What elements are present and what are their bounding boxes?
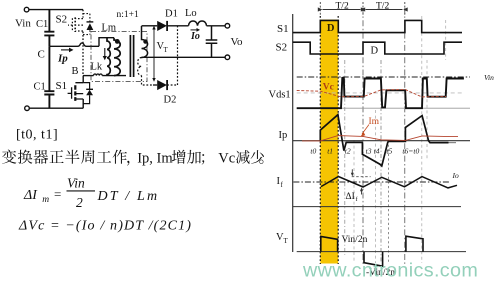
- wire Lo to output: [207, 25, 226, 27]
- gridline x=363: [362, 8, 364, 264]
- waveform If: [321, 177, 457, 188]
- wire top rail: [29, 9, 83, 11]
- transformer secondary upper winding: [142, 26, 148, 58]
- output terminal bottom: [225, 55, 230, 60]
- waveform S1: [293, 20, 462, 32]
- label D (S2): [371, 46, 379, 57]
- svg-text:C: C: [38, 49, 45, 61]
- node B label: [72, 66, 79, 77]
- dotted freewheel connection D2 to D1: [167, 26, 177, 85]
- svg-text:B: B: [72, 66, 79, 77]
- svg-text:S2: S2: [276, 42, 288, 54]
- Vds1 zero line: [297, 107, 470, 109]
- node C wire with hop: [50, 43, 100, 46]
- waveform S2: [293, 42, 462, 54]
- svg-text:Lk: Lk: [91, 62, 103, 73]
- svg-text:t3: t3: [366, 147, 372, 156]
- svg-text:t0: t0: [310, 147, 316, 156]
- svg-text:t6=t0: t6=t0: [402, 147, 419, 156]
- svg-text:t2: t2: [345, 147, 351, 156]
- gridline t1 (dotted): [337, 16, 339, 264]
- capacitor C1 top: [36, 10, 54, 47]
- node C label: [38, 49, 45, 61]
- label Vc (red): [323, 82, 334, 92]
- formula delta Vc: [18, 219, 192, 234]
- svg-text:Vin: Vin: [15, 18, 31, 30]
- svg-text:2: 2: [76, 195, 83, 210]
- output capacitor: [206, 26, 218, 58]
- If zero line: [293, 206, 461, 208]
- Im curve (red): [302, 136, 458, 141]
- Vc curve (red dashed): [297, 90, 446, 98]
- diode D2: [153, 80, 176, 106]
- wire output return: [142, 56, 226, 58]
- dash-dot transformer box: [91, 32, 147, 82]
- formula delta Im: [23, 176, 159, 211]
- svg-text:T: T: [164, 46, 169, 54]
- svg-text:C1: C1: [36, 19, 48, 30]
- switch S2 (dotted MOSFET): [56, 10, 84, 76]
- svg-text:T/2: T/2: [376, 2, 389, 12]
- svg-text:n:1+1: n:1+1: [117, 10, 139, 20]
- V_T zero line: [297, 251, 466, 253]
- transformer secondary lower winding (dashed): [138, 58, 153, 86]
- svg-text:D: D: [371, 46, 379, 57]
- svg-text:T: T: [284, 237, 289, 245]
- svg-text:ΔI: ΔI: [346, 192, 355, 202]
- svg-text:C1: C1: [34, 82, 46, 93]
- svg-text:Vo: Vo: [231, 36, 244, 48]
- label Vin: [15, 18, 31, 30]
- svg-text:Vds1: Vds1: [269, 90, 291, 101]
- gridline x=354: [353, 140, 355, 263]
- wire bottom rail: [29, 107, 83, 109]
- gridline x=427: [426, 60, 428, 160]
- svg-text:D1: D1: [165, 9, 178, 20]
- body diode of S2: [83, 14, 93, 35]
- magnetizing current arrow: [103, 48, 107, 60]
- transformer primary / magnetizing inductance Lm: [102, 23, 121, 76]
- svg-text:Io: Io: [190, 31, 200, 42]
- svg-text:=: =: [54, 187, 61, 202]
- output terminal top: [225, 24, 230, 29]
- T/2 arrows: [318, 2, 408, 16]
- svg-text:D2: D2: [164, 95, 177, 106]
- svg-text:Lo: Lo: [185, 8, 197, 19]
- wire coil top rail: [99, 38, 114, 47]
- gridline x=421.8: [421, 16, 423, 263]
- description line (Chinese): [2, 150, 264, 167]
- svg-text:Vin: Vin: [67, 176, 85, 191]
- svg-text:Io: Io: [452, 171, 459, 180]
- svg-text:Im: Im: [369, 117, 380, 127]
- svg-text:www.cntronics.com: www.cntronics.com: [302, 259, 478, 281]
- svg-text:D: D: [327, 23, 335, 34]
- svg-text:T/2: T/2: [336, 2, 349, 12]
- diode D1: [142, 9, 189, 31]
- Io average dash-dot line: [293, 171, 459, 182]
- svg-text:DT / Lm: DT / Lm: [97, 189, 160, 204]
- V_T measurement arrows: [152, 26, 168, 82]
- current Io arrow: [190, 28, 200, 42]
- Ip zero line: [293, 140, 470, 142]
- svg-text:t5: t5: [386, 147, 392, 156]
- Ip trace fading tail: [449, 142, 457, 144]
- label S2: [276, 42, 288, 54]
- switch S1 (MOSFET): [56, 76, 84, 109]
- gridline x=388.5: [388, 140, 390, 263]
- waveform Ip: [320, 115, 448, 166]
- label Vds1: [269, 90, 291, 101]
- transformer core: [130, 35, 133, 77]
- axis vertical line: [292, 14, 294, 252]
- label V_T (waveform): [276, 232, 289, 245]
- polarity dot secondary: [143, 39, 147, 43]
- gridline x=445.7: [445, 20, 447, 60]
- label Ip (waveform): [279, 130, 288, 141]
- yellow highlight band t0-t1: [320, 20, 338, 264]
- svg-text:S1: S1: [56, 80, 68, 92]
- svg-text:t4: t4: [374, 147, 380, 156]
- turns ratio label n:1+1: [117, 10, 139, 20]
- gridline x=381: [380, 60, 382, 263]
- wire node B: [83, 75, 94, 77]
- svg-text:Vin: Vin: [484, 73, 494, 82]
- label If: [277, 176, 284, 189]
- svg-text:m: m: [42, 195, 49, 205]
- svg-text:Vc: Vc: [323, 82, 334, 92]
- current Ip arrow: [57, 48, 74, 65]
- svg-text:Ip: Ip: [279, 130, 288, 141]
- body diode of S1: [83, 83, 93, 104]
- inductor Lo: [185, 8, 207, 26]
- label Vo: [231, 36, 244, 48]
- Vin/2 level dashed line: [297, 92, 462, 94]
- label Im (red) with arrow: [361, 117, 380, 136]
- gridline x=375.5: [375, 110, 377, 263]
- gridline t0 (dotted): [319, 16, 321, 264]
- svg-text:S2: S2: [56, 14, 68, 26]
- time axis labels: [310, 147, 419, 156]
- watermark: [302, 259, 478, 281]
- gridline x=344.8: [344, 60, 346, 255]
- interval label [t0,t1]: [16, 128, 58, 143]
- waveform Vds1: [297, 78, 464, 108]
- label D in band (S1): [327, 23, 335, 34]
- label S1: [277, 23, 289, 35]
- svg-text:Vin/2n: Vin/2n: [342, 235, 368, 245]
- wire coil bottom rail: [102, 75, 126, 77]
- label Vin/2n: [342, 235, 368, 245]
- input terminal top: [24, 7, 29, 12]
- svg-text:S1: S1: [277, 23, 289, 35]
- svg-text:ΔI: ΔI: [23, 188, 38, 203]
- svg-text:Ip: Ip: [57, 53, 68, 65]
- input terminal bottom: [25, 106, 30, 111]
- delta If annotation: [346, 169, 371, 203]
- inductor Lk: [91, 62, 103, 76]
- svg-text:[t0, t1]: [t0, t1]: [16, 128, 58, 143]
- svg-text:t1: t1: [327, 147, 333, 156]
- svg-text:ΔVc = −(Io / n)DT /(2C1): ΔVc = −(Io / n)DT /(2C1): [18, 219, 192, 234]
- capacitor C1 bottom: [34, 46, 55, 108]
- svg-text:Ip, Im: Ip, Im: [137, 150, 173, 166]
- waveform V_T: [321, 236, 423, 266]
- svg-text:Vc: Vc: [218, 150, 235, 166]
- polarity dot primary: [115, 39, 120, 44]
- label -Vin/2n: [366, 268, 395, 278]
- gridline x=404.8: [404, 8, 406, 264]
- Vin level dash-dot line: [297, 73, 494, 82]
